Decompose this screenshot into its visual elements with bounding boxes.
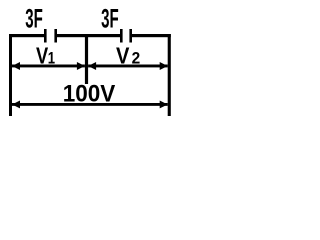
V2 dimension arrow (double-headed) bbox=[88, 62, 168, 70]
wire top-left segment bbox=[9, 34, 44, 37]
wire right vertical bbox=[168, 34, 171, 116]
voltage label V1 bbox=[36, 43, 55, 69]
voltage label V2 bbox=[116, 43, 140, 69]
wire top-middle segment bbox=[57, 34, 120, 37]
capacitor C2 bbox=[120, 29, 132, 43]
V1 dimension arrow (double-headed) bbox=[12, 62, 85, 70]
capacitor C1 bbox=[44, 29, 57, 43]
wire top-right segment bbox=[132, 34, 171, 37]
node junction bar between C1 and C2 bbox=[85, 34, 88, 84]
svg-text:3F: 3F bbox=[101, 4, 119, 34]
100V dimension arrow (double-headed) bbox=[12, 101, 168, 109]
wire left vertical bbox=[9, 34, 12, 116]
svg-text:3F: 3F bbox=[25, 4, 43, 34]
